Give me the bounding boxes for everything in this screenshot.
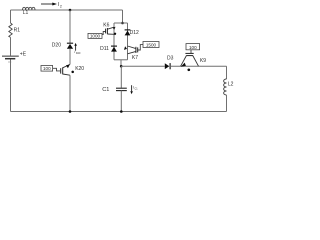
wire right corner down <box>226 66 228 79</box>
wire top rail <box>11 9 123 11</box>
diode D20 <box>52 42 73 48</box>
svg-text:K6: K6 <box>103 22 109 28</box>
svg-text:100: 100 <box>43 66 51 71</box>
diode D11 <box>100 46 117 52</box>
svg-text:2: 2 <box>60 5 62 9</box>
wire mid rail right <box>170 65 226 67</box>
wire C1 branch lower <box>120 91 122 112</box>
transistor K20 <box>53 64 85 75</box>
inductor L2 <box>224 79 234 95</box>
svg-text:K20: K20 <box>75 66 84 72</box>
transistor K9 <box>181 50 207 71</box>
svg-text:1500: 1500 <box>146 43 157 48</box>
wire bridge tap <box>120 60 122 66</box>
current arrow I2 <box>41 2 62 8</box>
source E battery <box>2 52 27 62</box>
transistor K6 <box>102 22 116 35</box>
wire C1 branch upper <box>120 66 122 88</box>
capacitor C1 <box>102 87 127 93</box>
svg-text:D3: D3 <box>167 56 174 62</box>
wire D20 branch upper <box>69 10 71 43</box>
svg-text:1000: 1000 <box>90 34 101 39</box>
svg-text:D20: D20 <box>52 42 61 48</box>
wire left rail mid <box>10 37 12 55</box>
svg-text:L1: L1 <box>23 10 29 16</box>
svg-text:100: 100 <box>189 45 197 50</box>
wire bridge feed <box>122 10 124 23</box>
wire left rail upper <box>10 10 12 23</box>
gate block 100 for K9 <box>186 44 200 50</box>
svg-text:+E: +E <box>20 52 27 58</box>
current arrow at C1 <box>130 85 138 94</box>
svg-text:D11: D11 <box>100 46 109 52</box>
svg-text:C1: C1 <box>102 87 109 93</box>
inductor L1 <box>23 7 36 16</box>
node junction bottom (70,111.5) <box>69 110 72 113</box>
wire bridge right branch <box>127 23 129 60</box>
wire D20 branch mid <box>69 49 71 65</box>
wire left rail lower <box>10 60 12 112</box>
node junction top (70,10) <box>69 9 72 12</box>
gate block 1500 for K7 <box>143 42 159 48</box>
wire bridge bottom <box>114 59 128 61</box>
svg-text:K9: K9 <box>200 58 206 64</box>
svg-text:D20: D20 <box>76 52 81 55</box>
diode D3 <box>165 56 174 70</box>
node junction mid (121,66.2) <box>120 65 123 68</box>
svg-text:D12: D12 <box>130 30 139 36</box>
svg-text:C1: C1 <box>135 88 139 91</box>
wire right lower <box>226 95 228 112</box>
resistor R1 <box>9 23 20 37</box>
diode D12 <box>125 30 139 36</box>
transistor K7 <box>124 45 143 62</box>
wire mid rail left <box>121 65 165 67</box>
wire bridge top <box>114 22 128 24</box>
current arrow at D20 <box>74 43 81 55</box>
svg-text:L2: L2 <box>228 81 234 87</box>
node junction C1 bottom <box>120 110 123 113</box>
svg-text:K7: K7 <box>132 55 138 61</box>
gate block 1000 for K6 <box>88 33 102 38</box>
node junction bridge top <box>121 22 124 25</box>
wire D20 branch lower <box>69 75 71 111</box>
wire bottom rail <box>11 111 227 113</box>
wire bridge left branch <box>113 23 115 60</box>
gate block 100 for K20 <box>41 66 53 72</box>
svg-text:R1: R1 <box>14 27 21 33</box>
